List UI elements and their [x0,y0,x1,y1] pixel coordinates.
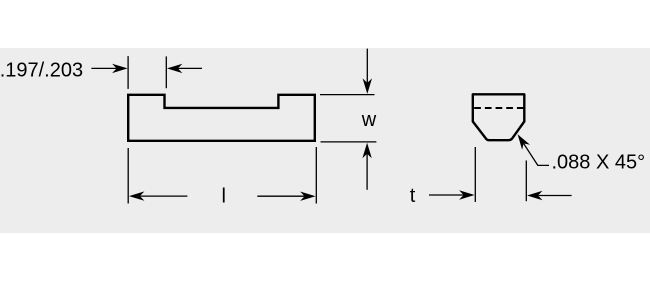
chamfer leader arrowhead [518,134,530,150]
arrowhead .197/.203 pointing left [167,64,183,73]
arrowhead t pointing left [527,191,543,200]
w bottom extension line [321,141,377,143]
t dimension line right [538,195,571,197]
w top arrow line [366,49,368,84]
arrowhead t pointing right [459,190,475,199]
key end view outline [473,94,525,140]
arrowhead l pointing left [129,191,145,200]
svg-text:.197/.203: .197/.203 [0,60,83,82]
chamfer leader line [524,143,550,165]
arrowhead w pointing down [363,78,372,94]
w bottom arrow line [366,153,368,190]
extension line left of .197/.203 [127,56,129,89]
hidden keyseat depth dashed line [474,107,523,109]
l left extension line [127,148,129,204]
key side view outline [128,95,315,141]
arrowhead w pointing up [362,143,371,159]
svg-text:w: w [361,109,377,131]
svg-text:l: l [221,185,225,207]
dimension line .197/.203 left [91,67,117,69]
extension line right of .197/.203 [165,56,167,88]
arrowhead l pointing right [300,192,316,201]
dimension line .197/.203 right [177,67,202,69]
l dimension line left [140,195,188,197]
t right extension line [525,161,527,202]
w top extension line [320,94,375,96]
t dimension line left [429,194,464,196]
svg-text:t: t [410,185,416,207]
l dimension line right [257,195,305,197]
arrowhead .197/.203 pointing right [112,64,128,73]
l right extension line [315,147,317,204]
t left extension line [474,147,476,202]
drawing background band [0,48,650,233]
svg-text:.088 X 45°: .088 X 45° [552,151,646,173]
